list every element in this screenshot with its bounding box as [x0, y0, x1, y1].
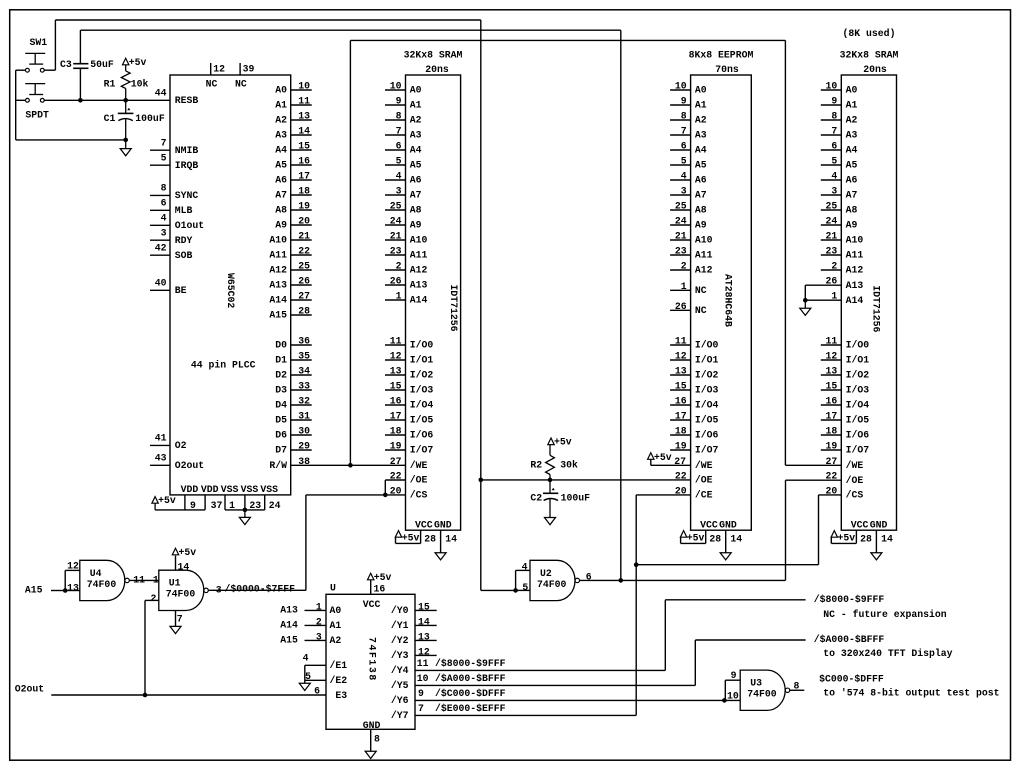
SRAM U5 pin 26 A13 [385, 284, 406, 286]
svg-text:A2: A2 [410, 115, 422, 126]
svg-text:+5v: +5v [129, 57, 147, 68]
SRAM U7 pin 22 /OE [786, 479, 842, 481]
svg-text:26: 26 [675, 301, 687, 312]
svg-text:A9: A9 [275, 220, 287, 231]
SRAM U5 pin 23 A11 [385, 254, 406, 256]
junction R1/C1 on RESB net [123, 98, 128, 103]
svg-text:8: 8 [681, 111, 687, 122]
svg-text:41: 41 [155, 433, 167, 444]
wire vertical x=480.8 down to U2 inputs [480, 480, 482, 591]
svg-text:O2: O2 [175, 440, 187, 451]
capacitor C2 polarized (plus mark, plates) [549, 480, 551, 493]
ground symbol under C2 [545, 518, 556, 525]
svg-text:+5v: +5v [838, 532, 856, 543]
svg-text:/Y3: /Y3 [391, 650, 409, 661]
svg-text:A6: A6 [695, 175, 707, 186]
svg-text:6: 6 [586, 572, 592, 583]
svg-text:VCC: VCC [700, 519, 718, 530]
svg-text:A8: A8 [695, 205, 707, 216]
CPU pin 12 NC (top) [210, 63, 212, 75]
power +5v above R1 [123, 58, 129, 65]
svg-text:25: 25 [675, 201, 687, 212]
SRAM U5 pin 3 A7 [385, 194, 406, 196]
svg-text:A0: A0 [846, 85, 858, 96]
svg-text:16: 16 [298, 156, 310, 167]
CPU pin 34 D2 [291, 374, 312, 376]
svg-text:A9: A9 [846, 220, 858, 231]
svg-text:U: U [330, 582, 336, 593]
svg-text:/Y5: /Y5 [391, 680, 409, 691]
wire SRAM2 /OE riser to U2 output net [785, 480, 787, 580]
svg-text:26: 26 [298, 276, 310, 287]
SRAM U7 pin 21 A10 [821, 239, 842, 241]
SRAM U7 pin 15 I/O3 [821, 389, 842, 391]
svg-text:4: 4 [396, 171, 402, 182]
CPU pin 36 D0 [291, 344, 312, 346]
svg-text:I/O1: I/O1 [410, 355, 434, 366]
ground symbol under EEPROM GND [720, 553, 731, 560]
svg-text:I/O4: I/O4 [410, 400, 434, 411]
wire /CE net branch to SRAM2 /CS [636, 564, 818, 566]
svg-text:20ns: 20ns [425, 64, 449, 75]
svg-text:15: 15 [826, 381, 838, 392]
svg-text:17: 17 [826, 411, 838, 422]
svg-text:44: 44 [155, 88, 167, 99]
svg-text:I/O2: I/O2 [410, 370, 434, 381]
wire /Y4 to NC note [664, 600, 666, 671]
EEPROM U6 pin 1 NC [670, 289, 691, 291]
CPU pin 4 O1out [150, 224, 170, 226]
svg-text:8: 8 [374, 734, 380, 745]
svg-text:6: 6 [681, 141, 687, 152]
svg-text:A10: A10 [846, 235, 864, 246]
wire SW common left stubs [16, 69, 26, 71]
wire top rail (SW1 to EEPROM /OE net) [55, 19, 480, 21]
svg-text:12: 12 [826, 351, 838, 362]
svg-text:/OE: /OE [410, 475, 428, 486]
svg-text:10: 10 [298, 81, 310, 92]
wire U1 output pin 3 to /$0000-$7FFF [208, 589, 306, 591]
svg-text:+5v: +5v [179, 547, 197, 558]
svg-text:4: 4 [831, 171, 837, 182]
CPU pin 16 A5 [291, 164, 312, 166]
wire ground rail under reset circuit [16, 139, 126, 141]
svg-text:9: 9 [190, 500, 196, 511]
svg-text:IDT71256: IDT71256 [448, 285, 459, 332]
junction SRAM1 /OE-/CS tie [383, 493, 388, 498]
svg-text:26: 26 [826, 276, 838, 287]
svg-text:23: 23 [826, 246, 838, 257]
svg-text:A5: A5 [410, 160, 422, 171]
svg-text:15: 15 [390, 381, 402, 392]
svg-text:A6: A6 [846, 175, 858, 186]
svg-text:D3: D3 [275, 385, 287, 396]
wire O2out net to 74F138 E3 [51, 694, 326, 696]
svg-text:3: 3 [831, 186, 837, 197]
junction A15 at U4 input bracket [63, 588, 68, 593]
svg-text:19: 19 [390, 441, 402, 452]
SRAM U5 pin 9 A1 [385, 104, 406, 106]
junction at /OE-R2 node x=480.8 [479, 478, 484, 483]
svg-text:A10: A10 [410, 235, 428, 246]
svg-text:21: 21 [826, 231, 838, 242]
power +5v at SRAM U7 VCC [830, 537, 832, 543]
SRAM U7 pin 1 A14 (grounded) [805, 299, 841, 301]
svg-text:9: 9 [681, 96, 687, 107]
CPU pin 31 D5 [291, 419, 312, 421]
svg-text:GND: GND [719, 519, 737, 530]
svg-text:23: 23 [675, 246, 687, 257]
junction R/W riser [348, 463, 353, 468]
svg-text:A11: A11 [269, 250, 287, 261]
svg-text:9: 9 [731, 670, 737, 681]
SRAM U5 pin 6 A4 [385, 149, 406, 151]
svg-text:/Y7: /Y7 [391, 710, 409, 721]
junction /Y6 at U3 inputs [722, 698, 727, 703]
power +5v at CPU VDD [152, 497, 158, 504]
svg-text:D5: D5 [275, 415, 287, 426]
svg-text:15: 15 [298, 141, 310, 152]
svg-text:6: 6 [396, 141, 402, 152]
svg-text:16: 16 [675, 396, 687, 407]
decoder pin 4 /E1 [305, 664, 326, 666]
svg-text:/OE: /OE [695, 475, 713, 486]
SRAM U5 pin 21 A10 [385, 239, 406, 241]
junction C1 bottom / ground rail [123, 138, 128, 143]
CPU pin 33 D3 [291, 389, 312, 391]
svg-text:R2: R2 [530, 460, 542, 471]
svg-text:VDD: VDD [201, 484, 219, 495]
EEPROM U6 pin 16 I/O4 [670, 404, 691, 406]
decoder pin 11 /Y4 [415, 669, 665, 671]
junction /CE net to SRAM2 /CS branch [634, 562, 639, 567]
svg-text:A0: A0 [330, 605, 342, 616]
CPU pin 20 A9 [291, 224, 312, 226]
CPU pin 35 D1 [291, 359, 312, 361]
svg-text:4: 4 [681, 171, 687, 182]
svg-text:O2out: O2out [175, 460, 204, 471]
CPU pin 32 D4 [291, 404, 312, 406]
svg-text:A11: A11 [846, 250, 864, 261]
svg-text:20ns: 20ns [863, 64, 887, 75]
svg-text:20: 20 [675, 485, 687, 496]
wire R/W jog rail y=40.4 [350, 39, 785, 41]
svg-text:D2: D2 [275, 370, 287, 381]
EEPROM U6 pin 7 A3 [670, 134, 691, 136]
wire /Y5 to TFT note [694, 640, 696, 685]
SRAM U5 bottom cell dividers [420, 530, 422, 543]
svg-text:/$C000-$DFFF: /$C000-$DFFF [435, 688, 506, 699]
svg-text:I/O0: I/O0 [410, 340, 434, 351]
CPU pin 17 A6 [291, 179, 312, 181]
svg-text:A3: A3 [695, 130, 707, 141]
svg-text:A0: A0 [275, 85, 287, 96]
svg-text:28: 28 [424, 533, 436, 544]
svg-text:C3: C3 [60, 59, 72, 70]
svg-text:U4: U4 [90, 568, 102, 579]
svg-text:8: 8 [396, 111, 402, 122]
svg-text:A12: A12 [695, 265, 713, 276]
power +5v above R2 [548, 438, 554, 445]
svg-text:A11: A11 [695, 250, 713, 261]
svg-text:A10: A10 [695, 235, 713, 246]
CPU pin 41 O2 [150, 444, 170, 446]
svg-text:33: 33 [298, 381, 310, 392]
svg-text:6: 6 [831, 141, 837, 152]
svg-text:11: 11 [675, 336, 687, 347]
svg-text:VCC: VCC [851, 519, 869, 530]
capacitor C3 plates [73, 63, 88, 65]
CPU pin 19 A8 [291, 209, 312, 211]
wire R/W net CPU pin38 to SRAM1 /WE [291, 464, 406, 466]
svg-text:12: 12 [213, 63, 225, 74]
CPU pin 11 A1 [291, 104, 312, 106]
svg-text:U1: U1 [169, 578, 181, 589]
svg-text:10k: 10k [131, 79, 149, 90]
svg-text:MLB: MLB [175, 205, 193, 216]
svg-text:18: 18 [298, 186, 310, 197]
decoder pin 12 /Y3 [415, 654, 437, 656]
svg-text:/$8000-$9FFF: /$8000-$9FFF [814, 594, 885, 605]
svg-text:22: 22 [390, 471, 402, 482]
svg-text:A1: A1 [695, 100, 707, 111]
svg-text:5: 5 [831, 156, 837, 167]
svg-text:27: 27 [826, 456, 838, 467]
wire SRAM1 /OE tie to /CS [384, 480, 386, 495]
svg-text:+5v: +5v [402, 532, 420, 543]
svg-text:2: 2 [831, 261, 837, 272]
svg-text:/Y1: /Y1 [391, 620, 409, 631]
svg-text:29: 29 [298, 441, 310, 452]
svg-text:11: 11 [390, 336, 402, 347]
svg-text:8: 8 [794, 681, 800, 692]
svg-text:C2: C2 [530, 493, 542, 504]
svg-text:2: 2 [151, 593, 157, 604]
svg-text:/WE: /WE [410, 460, 428, 471]
SRAM U7 pin 20 /CS [819, 494, 842, 496]
svg-text:VSS: VSS [221, 484, 239, 495]
wire SW1 upper contact to top rail [44, 69, 55, 71]
wire U1 pin 2 from O2out net [145, 599, 159, 601]
svg-text:20: 20 [298, 216, 310, 227]
svg-text:D7: D7 [275, 445, 287, 456]
SRAM U7 pin 3 A7 [821, 194, 842, 196]
svg-text:10: 10 [417, 673, 429, 684]
svg-text:18: 18 [826, 426, 838, 437]
SRAM U7 pin 25 A8 [821, 209, 842, 211]
decoder pin 1 A0 [305, 609, 327, 611]
CPU pin 13 A2 [291, 119, 312, 121]
wire R/W down to SRAM2 /WE [784, 40, 786, 465]
EEPROM U6 pin 21 A10 [670, 239, 691, 241]
svg-text:NC: NC [206, 79, 218, 90]
EEPROM U6 pin 6 A4 [670, 149, 691, 151]
svg-text:30: 30 [298, 426, 310, 437]
svg-text:A4: A4 [846, 145, 858, 156]
SRAM U7 pin 23 A11 [821, 254, 842, 256]
SRAM U5 pin 22 /OE [385, 479, 405, 481]
SRAM U5 pin 13 I/O2 [385, 374, 406, 376]
SRAM U7 pin 8 A2 [821, 119, 842, 121]
CPU pin 22 A11 [291, 254, 312, 256]
wire /OE-R2 net to EEPROM /OE [481, 479, 691, 481]
CPU pin 7 NMIB [150, 149, 170, 151]
svg-text:/WE: /WE [695, 460, 713, 471]
svg-text:A15: A15 [25, 584, 43, 595]
CPU pin 15 A4 [291, 149, 312, 151]
svg-text:74F00: 74F00 [747, 689, 777, 700]
svg-text:A4: A4 [410, 145, 422, 156]
power +5v at U1 pin 14 [175, 556, 177, 571]
svg-text:12: 12 [67, 561, 79, 572]
decoder pin 10 /Y5 [415, 684, 695, 686]
svg-text:R1: R1 [104, 79, 116, 90]
svg-text:10: 10 [675, 81, 687, 92]
svg-text:I/O3: I/O3 [846, 385, 870, 396]
svg-text:27: 27 [298, 291, 310, 302]
svg-text:19: 19 [826, 441, 838, 452]
junction VSS ground point [243, 508, 248, 513]
EEPROM U6 pin 4 A6 [670, 179, 691, 181]
svg-text:NMIB: NMIB [175, 145, 199, 156]
junction A14 ground [803, 298, 808, 303]
svg-text:1: 1 [681, 281, 687, 292]
svg-text:SW1: SW1 [30, 37, 48, 48]
svg-text:SPDT: SPDT [25, 109, 49, 120]
svg-text:E3: E3 [335, 690, 347, 701]
svg-text:A12: A12 [846, 265, 864, 276]
svg-text:/$8000-$9FFF: /$8000-$9FFF [435, 658, 506, 669]
svg-text:74F00: 74F00 [537, 579, 567, 590]
switch SW1 upper contacts [26, 68, 30, 72]
svg-text:24: 24 [390, 216, 402, 227]
svg-text:I/O0: I/O0 [695, 340, 719, 351]
svg-text:D4: D4 [275, 400, 287, 411]
svg-text:A0: A0 [410, 85, 422, 96]
svg-text:100uF: 100uF [561, 493, 591, 504]
svg-text:25: 25 [390, 201, 402, 212]
svg-text:12: 12 [675, 351, 687, 362]
svg-text:4: 4 [303, 652, 309, 663]
svg-text:7: 7 [418, 703, 424, 714]
svg-text:A2: A2 [695, 115, 707, 126]
SRAM U5 pin 24 A9 [385, 224, 406, 226]
decoder pin 2 A1 [305, 624, 327, 626]
SRAM U7 pin 16 I/O4 [821, 404, 842, 406]
SRAM U7 pin 9 A1 [821, 104, 842, 106]
CPU pin 3 RDY [150, 239, 170, 241]
svg-text:70ns: 70ns [715, 64, 739, 75]
svg-text:13: 13 [298, 111, 310, 122]
svg-text:18: 18 [675, 426, 687, 437]
EEPROM U6 pin 20 /CE [636, 494, 690, 496]
svg-text:11: 11 [298, 96, 310, 107]
svg-text:I/O7: I/O7 [846, 445, 870, 456]
svg-text:3: 3 [316, 631, 322, 642]
svg-text:A3: A3 [275, 130, 287, 141]
EEPROM U6 pin 12 I/O1 [670, 359, 691, 361]
svg-text:3: 3 [161, 228, 167, 239]
SRAM U7 pin 18 I/O6 [821, 434, 842, 436]
junction U2 input bracket [513, 588, 518, 593]
svg-text:/WE: /WE [846, 460, 864, 471]
junction R2 bottom on /OE net [548, 478, 553, 483]
svg-text:to '574 8-bit output test post: to '574 8-bit output test post [823, 688, 999, 699]
svg-text:7: 7 [396, 126, 402, 137]
svg-text:/OE: /OE [846, 475, 864, 486]
svg-text:IDT71256: IDT71256 [870, 285, 881, 332]
SRAM U7 pin 24 A9 [821, 224, 842, 226]
CPU pin 28 A15 [291, 314, 312, 316]
svg-text:+5v: +5v [374, 572, 392, 583]
wire /$0000-$7FFF net to SRAM1 /CS [306, 494, 385, 496]
svg-text:/$A000-$BFFF: /$A000-$BFFF [814, 634, 885, 645]
svg-text:A7: A7 [695, 190, 707, 201]
svg-text:16: 16 [826, 396, 838, 407]
svg-text:A14: A14 [269, 295, 287, 306]
svg-text:7: 7 [831, 126, 837, 137]
svg-text:SYNC: SYNC [175, 190, 199, 201]
resistor R1 10k pullup (zigzag) [125, 65, 127, 71]
SRAM U7 pin 10 A0 [821, 89, 842, 91]
svg-text:6: 6 [314, 686, 320, 697]
svg-text:19: 19 [298, 201, 310, 212]
CPU pin 30 D6 [291, 434, 312, 436]
CPU bottom pin cell dividers [184, 495, 186, 510]
EEPROM U6 pin 18 I/O6 [670, 434, 691, 436]
svg-text:to 320x240 TFT Display: to 320x240 TFT Display [823, 648, 952, 659]
svg-text:I/O3: I/O3 [695, 385, 719, 396]
svg-text:1: 1 [316, 601, 322, 612]
switch SW1 lower pushbutton (actuator and bridge) [25, 83, 45, 85]
svg-text:26: 26 [390, 276, 402, 287]
svg-text:O1out: O1out [175, 220, 204, 231]
junction O2out riser [143, 693, 148, 698]
svg-text:A5: A5 [846, 160, 858, 171]
SRAM U7 pin 6 A4 [821, 149, 842, 151]
svg-text:8: 8 [161, 183, 167, 194]
svg-text:17: 17 [390, 411, 402, 422]
svg-text:3: 3 [396, 186, 402, 197]
svg-text:28: 28 [709, 533, 721, 544]
svg-text:A2: A2 [846, 115, 858, 126]
SRAM U7 IDT71256 body [841, 75, 896, 530]
CPU pin 43 O2out [150, 464, 170, 466]
svg-text:A1: A1 [410, 100, 422, 111]
decoder pin 7 /Y7 [415, 714, 636, 716]
SRAM U5 pin 11 I/O0 [385, 344, 406, 346]
svg-text:16: 16 [374, 584, 386, 595]
svg-text:/Y2: /Y2 [391, 635, 409, 646]
svg-text:7: 7 [681, 126, 687, 137]
SRAM U7 bottom cell dividers [855, 530, 857, 543]
svg-text:/$E000-$EFFF: /$E000-$EFFF [435, 703, 506, 714]
svg-text:1: 1 [153, 575, 159, 586]
svg-text:VCC: VCC [363, 599, 381, 610]
svg-text:VCC: VCC [415, 519, 433, 530]
svg-text:A6: A6 [410, 175, 422, 186]
svg-text:I/O4: I/O4 [695, 400, 719, 411]
svg-text:21: 21 [390, 231, 402, 242]
wire vertical x=620.8 down to U2 output [620, 30, 622, 580]
power +5v at EEPROM VCC [680, 537, 682, 543]
svg-text:A15: A15 [269, 310, 287, 321]
svg-text:A14: A14 [410, 295, 428, 306]
svg-text:6: 6 [161, 198, 167, 209]
svg-text:A3: A3 [846, 130, 858, 141]
svg-text:A13: A13 [846, 280, 864, 291]
svg-text:A11: A11 [410, 250, 428, 261]
